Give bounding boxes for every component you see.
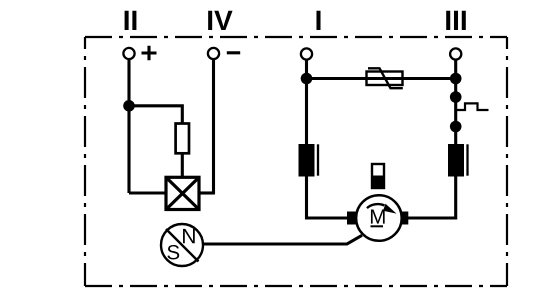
magnet position sensor (N/S) — [161, 224, 203, 266]
wire: sensor to motor — [203, 235, 362, 244]
suppression choke L2 — [448, 144, 464, 177]
wire: choke L2 to motor right brush — [408, 177, 456, 219]
motor letter M — [371, 210, 385, 224]
terminal III — [450, 48, 461, 59]
resistor R1 — [176, 124, 189, 154]
motor M1 — [356, 195, 402, 241]
wire: terminal I down to choke — [305, 60, 308, 144]
choke L2 core line — [466, 144, 468, 175]
plus sign at terminal II — [142, 46, 157, 61]
motor underline — [371, 225, 384, 227]
dash-dot enclosure border — [85, 37, 507, 286]
minus sign at terminal IV — [227, 51, 240, 54]
wire: terminal II down to lamp branch — [127, 59, 130, 193]
junction dot on II wire — [123, 100, 135, 112]
junction dot below terminal I — [301, 73, 313, 85]
thermal fuse F1 — [367, 68, 403, 88]
label III — [446, 11, 466, 30]
thermal switch in motor — [372, 164, 384, 188]
wire: resistor bottom to lamp box — [181, 153, 184, 177]
terminal II — [123, 48, 134, 59]
junction dot III middle — [450, 91, 462, 103]
choke L1 core line — [317, 144, 319, 175]
junction dot III upper — [450, 73, 462, 85]
suppression choke L1 — [299, 144, 315, 177]
label IV — [208, 11, 232, 30]
label II — [125, 11, 137, 30]
terminal IV — [208, 48, 219, 59]
sensor diagonal — [166, 229, 199, 262]
wire: terminal III down to choke — [454, 60, 457, 144]
motor rotation arrow — [367, 204, 385, 208]
wire: junction to resistor top — [129, 106, 182, 124]
wire: terminal IV down — [212, 59, 215, 194]
wire: choke L1 to motor left brush — [307, 177, 348, 219]
wire: lamp right to IV wire — [199, 191, 215, 194]
cam limit switch contact — [456, 103, 489, 110]
sensor label N — [183, 229, 195, 243]
motor right brush — [401, 212, 409, 225]
label I — [316, 11, 320, 30]
motor left brush — [347, 212, 356, 225]
sensor label S — [167, 245, 179, 260]
wire: fuse link I to III — [307, 77, 456, 80]
terminal I — [301, 48, 312, 59]
wire: II branch into lamp left — [129, 191, 166, 194]
indicator lamp (crossed box) — [166, 177, 199, 209]
junction dot III lower — [450, 121, 462, 133]
